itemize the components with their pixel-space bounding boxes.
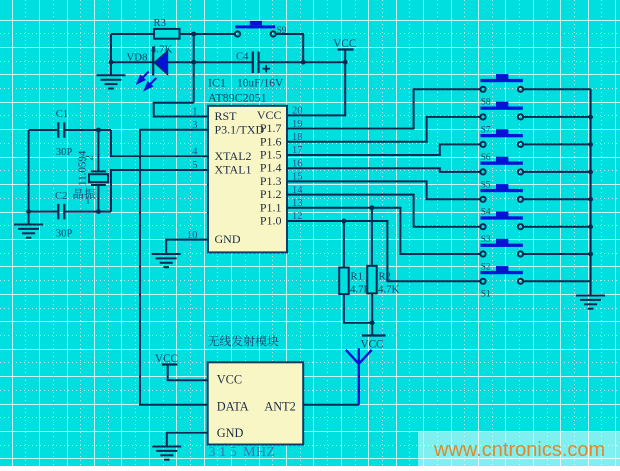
wire pin 3 P3.1/TXD to module DATA (140, 130, 208, 405)
wire VCC-down stem (371, 323, 373, 336)
junction R3-S9 (191, 32, 196, 37)
wire pin14-S3 (287, 195, 480, 227)
wire S9 right to C4 row (276, 34, 303, 62)
wire S8 to bus (523, 88, 591, 90)
wire R2 top lead (371, 208, 373, 266)
svg-text:P1.6: P1.6 (260, 134, 282, 148)
resistor R2 (367, 266, 377, 294)
ground right bus (576, 296, 605, 309)
svg-text:C4: C4 (236, 52, 249, 63)
svg-text:10: 10 (187, 230, 198, 241)
watermark band (418, 431, 620, 466)
wire C2 left lead (29, 211, 58, 213)
wire to pin 4 XTAL2 (111, 130, 208, 156)
wire C4 right lead to VCC (260, 61, 346, 63)
svg-text:P1.2: P1.2 (260, 187, 282, 201)
wire pin19-S8 (287, 89, 480, 128)
switch S1 (480, 266, 523, 284)
capacitor C2 (58, 204, 64, 219)
capacitor C4 (253, 52, 259, 74)
svg-text:S4: S4 (481, 208, 491, 218)
switch S9 (235, 21, 276, 37)
svg-text:4.7K: 4.7K (378, 284, 399, 296)
wire left vertical R3 to VD8 (110, 34, 112, 62)
wire S5 to bus (523, 171, 591, 173)
wire C4 left lead (194, 61, 252, 63)
svg-text:DATA: DATA (217, 400, 249, 414)
switch S7 (480, 102, 523, 120)
svg-text:S5: S5 (481, 180, 491, 190)
svg-text:5: 5 (192, 160, 197, 171)
svg-text:S1: S1 (481, 290, 491, 300)
wire pin17-S6 (287, 144, 480, 155)
wire ground stem top-left (110, 62, 112, 75)
wire VD8 row (111, 61, 194, 63)
op-amp U1 : IC AT89C2051 body (208, 106, 287, 253)
wire pin15-S4 (287, 181, 480, 199)
wire R1 bottom lead (344, 294, 372, 323)
svg-text:GND: GND (215, 232, 241, 246)
svg-text:www.cntronics.com: www.cntronics.com (433, 439, 605, 461)
junction bus S3 (588, 224, 593, 229)
svg-text:P1.0: P1.0 (260, 214, 282, 228)
svg-text:S8: S8 (481, 98, 491, 108)
wire pin 10 GND (166, 240, 208, 254)
junction crystal bottom (96, 209, 101, 214)
svg-text:VCC: VCC (257, 108, 282, 122)
svg-text:VCC: VCC (217, 373, 242, 387)
label crystal 晶 (74, 188, 84, 198)
svg-text:ANT2: ANT2 (264, 400, 295, 414)
svg-text:1: 1 (86, 197, 91, 207)
wire VCC to module (168, 365, 208, 381)
wire S6 to bus (523, 143, 591, 145)
wire pin18-S7 (287, 117, 480, 142)
svg-text:GND: GND (217, 426, 244, 440)
svg-text:4: 4 (192, 147, 198, 158)
wire S3 to bus (523, 226, 591, 228)
svg-text:C2: C2 (55, 191, 67, 202)
capacitor C1 (58, 122, 64, 137)
svg-text:2: 2 (84, 155, 96, 161)
svg-text:30P: 30P (56, 229, 73, 240)
svg-text:P1.7: P1.7 (260, 121, 282, 135)
svg-text:R2: R2 (379, 272, 391, 283)
resistor R1 (339, 268, 349, 295)
wire C2 right lead (65, 211, 111, 213)
ground top-left (97, 75, 126, 88)
wire R3 right lead to S9 (180, 33, 235, 35)
junction crystal top (96, 128, 101, 133)
svg-text:P1.5: P1.5 (260, 148, 282, 162)
wire ANT2 to antenna (303, 404, 359, 406)
label crystal 振 (85, 188, 96, 199)
junction VCC node (343, 60, 348, 65)
wire pin16-S5 (287, 168, 480, 172)
junction bus S7 (588, 115, 593, 120)
junction bus S5 (588, 170, 593, 175)
resistor R3 (154, 29, 180, 39)
svg-text:30P: 30P (56, 147, 73, 158)
diode VD8 (LED) (153, 47, 167, 76)
svg-text:P1.1: P1.1 (260, 200, 282, 214)
wire right ground bus (590, 89, 592, 281)
junction bus S6 (588, 142, 593, 147)
switch S4 (480, 184, 523, 202)
junction VD8 left (109, 60, 114, 65)
antenna (346, 348, 372, 405)
svg-text:VCC: VCC (155, 353, 178, 365)
switch S5 (480, 157, 523, 175)
wire S4 to bus (523, 198, 591, 200)
svg-text:10uF/16V: 10uF/16V (237, 78, 284, 90)
svg-text:S7: S7 (481, 125, 491, 135)
wire pin13-S2 (287, 208, 480, 254)
junction S9-C4 (301, 60, 306, 65)
svg-text:C1: C1 (56, 109, 68, 120)
switch S3 (480, 212, 523, 230)
svg-text:XTAL2: XTAL2 (215, 149, 252, 163)
svg-text:P1.4: P1.4 (260, 161, 282, 175)
wire R3 left lead (111, 33, 154, 35)
wire R2 bottom lead (371, 293, 373, 322)
wire S7 to bus (523, 116, 591, 118)
wire pin 20 to VCC (287, 62, 345, 115)
junction bus S2 (588, 252, 593, 257)
junction VD8-C4 (191, 60, 196, 65)
switch S2 (480, 239, 523, 257)
ground left (14, 225, 43, 238)
svg-text:R3: R3 (154, 18, 166, 29)
svg-text:S6: S6 (481, 153, 491, 163)
junction R1-R2 bottom (370, 320, 375, 325)
svg-text:AT89C2051: AT89C2051 (208, 91, 267, 105)
wire R1 top lead (343, 221, 345, 268)
wire C1 left lead (29, 129, 58, 131)
svg-text:20: 20 (292, 106, 303, 117)
junction R1 top (342, 219, 347, 224)
VCC symbol (inverted) (362, 334, 386, 336)
junction R2 top (370, 205, 375, 210)
wire VCC stem (344, 50, 346, 63)
junction C2 ground (26, 209, 31, 214)
svg-text:VD8: VD8 (127, 52, 148, 64)
svg-text:P3.1/TXD: P3.1/TXD (215, 122, 265, 136)
label 无线发射模块 (wireless TX module title) (208, 336, 219, 347)
svg-text:XTAL1: XTAL1 (215, 163, 252, 177)
VCC symbol top (338, 48, 354, 50)
switch S6 (480, 129, 523, 147)
wire pin12-S1 (287, 221, 480, 281)
wire S2 to bus (523, 253, 591, 255)
transmitter module U2 body (208, 362, 304, 444)
svg-text:VCC: VCC (333, 38, 356, 50)
VD8 emission arrows (138, 72, 157, 90)
svg-text:VCC: VCC (361, 339, 384, 351)
wire module GND (167, 433, 208, 446)
svg-text:R1: R1 (351, 272, 363, 283)
svg-text:3: 3 (192, 120, 197, 131)
crystal Y1 11.0594 (89, 130, 108, 212)
wire to pin 5 XTAL1 (111, 170, 208, 212)
svg-text:P1.3: P1.3 (260, 174, 282, 188)
wire bus ground stem (590, 281, 592, 295)
wire C1 right lead (65, 129, 111, 131)
wire junction vertical (193, 34, 195, 103)
wire S1 to bus (523, 280, 591, 282)
junction bus S4 (588, 197, 593, 202)
wire left vertical C1-C2 (28, 130, 30, 224)
switch S8 (480, 74, 523, 92)
wire to pin 1 RST (154, 103, 208, 117)
svg-text:IC1: IC1 (208, 76, 226, 90)
ground module (152, 447, 181, 460)
svg-text:RST: RST (215, 109, 238, 123)
svg-text:1: 1 (192, 107, 197, 118)
ground IC pin 10 (152, 254, 181, 267)
